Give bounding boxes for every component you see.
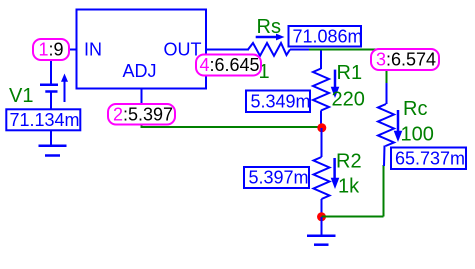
wire ground stub — [321, 217, 323, 235]
wire R2 top lead — [321, 128, 323, 157]
R2 current arrow down — [333, 158, 336, 179]
voltage source V1 battery top plate — [40, 84, 58, 87]
svg-text:1k: 1k — [338, 176, 360, 198]
wire ADJ net green — [142, 123, 322, 127]
wire OUT pin to Rs — [206, 49, 249, 51]
op-amp U1 regulator block — [77, 10, 207, 89]
value box 5.397m — [244, 167, 309, 188]
wire V1 bottom lead — [50, 92, 52, 110]
resistor R1 zigzag — [313, 69, 329, 111]
svg-text:71.134m: 71.134m — [10, 110, 80, 130]
value box 71.134m (V1 current) — [6, 109, 80, 130]
svg-text:OUT: OUT — [164, 40, 202, 60]
svg-text:Rc: Rc — [403, 98, 427, 120]
R1 current arrow down — [334, 70, 337, 88]
voltage source V1 battery bottom plate — [45, 90, 57, 93]
wire Rc top lead — [386, 83, 388, 104]
wire node3 vertical down to Rc — [386, 50, 388, 84]
svg-text:2:5.397: 2:5.397 — [113, 105, 173, 125]
junction node B (R2/Rc/ground) — [317, 212, 326, 221]
node 3 label 3:6.574 — [371, 49, 439, 70]
value box 71.086m — [289, 26, 362, 47]
Rc current arrow down — [397, 110, 400, 132]
wire bottom net green horizontal — [322, 216, 384, 218]
wire R1 bottom lead — [320, 111, 322, 127]
wire IN pin stub — [69, 49, 77, 51]
svg-text:3:6.574: 3:6.574 — [376, 50, 436, 70]
wire V1 to ground — [50, 131, 52, 146]
ground (bottom, R2) — [307, 234, 336, 237]
wire V1 top lead — [50, 58, 52, 84]
svg-text:ADJ: ADJ — [123, 61, 157, 81]
ground (left, V1) — [39, 144, 67, 147]
node 2 label 2:5.397 — [108, 104, 175, 125]
junction node A (R1/R2/ADJ) — [317, 123, 326, 132]
svg-text:4:6.645: 4:6.645 — [200, 55, 260, 75]
svg-text:5.397m: 5.397m — [249, 168, 309, 188]
wire Rs right lead — [290, 49, 309, 51]
value box 5.349m — [246, 91, 310, 113]
svg-text:1:9: 1:9 — [39, 40, 64, 60]
svg-text:R2: R2 — [336, 151, 362, 173]
V1 polarity arrow up — [64, 81, 66, 102]
resistor Rc zigzag — [378, 104, 394, 146]
node 4 label 4:6.645 — [196, 55, 261, 76]
resistor R2 zigzag — [314, 157, 330, 199]
svg-text:71.086m: 71.086m — [293, 27, 363, 47]
svg-text:65.737m: 65.737m — [395, 149, 465, 169]
svg-text:IN: IN — [84, 40, 102, 60]
svg-text:5.349m: 5.349m — [251, 92, 311, 112]
svg-text:100: 100 — [401, 124, 434, 146]
svg-text:V1: V1 — [9, 85, 33, 107]
wire ADJ pin stub — [141, 89, 143, 106]
resistor Rs zigzag — [248, 43, 290, 56]
wire R1 top lead — [320, 51, 322, 70]
svg-text:R1: R1 — [337, 62, 363, 84]
value box 65.737m — [391, 148, 466, 170]
wire R2 bottom lead — [321, 199, 323, 214]
svg-text:220: 220 — [332, 89, 365, 111]
wire Rc bottom lead — [383, 146, 386, 167]
wire bottom net green vertical to Rc — [383, 165, 385, 217]
node 1 label 1:9 — [33, 39, 69, 60]
Rs current arrow right — [256, 36, 277, 39]
wire node3 horizontal (green) — [309, 49, 388, 51]
